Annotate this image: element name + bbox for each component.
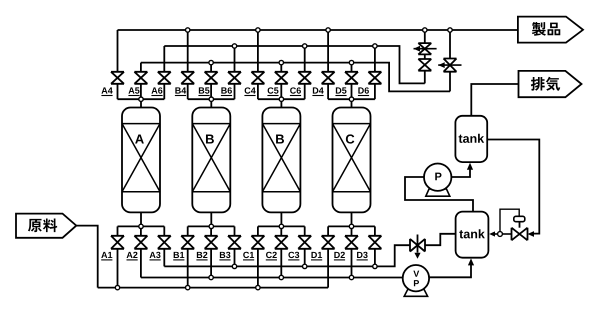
node bottom manifold A: [139, 224, 143, 228]
wire valve D5 to manifold: [351, 84, 353, 99]
wire riser valve A6: [163, 46, 165, 72]
pump P: [424, 164, 451, 197]
node B5 bus junction: [209, 60, 213, 64]
node C6 bus junction: [303, 44, 307, 48]
wire valve V4 stem: [417, 235, 419, 253]
wire manifold to valve A2: [140, 226, 142, 235]
node manifold D: [349, 97, 353, 101]
wire rinse bus: [141, 277, 403, 279]
adsorber vessel C4: [333, 108, 371, 213]
wire manifold to vessel B: [210, 99, 212, 107]
valve B3: [228, 236, 241, 249]
wire tap to valve V5: [502, 233, 511, 235]
wire valve V3 drop: [449, 72, 451, 92]
label D3: [357, 252, 368, 258]
arrow into tank T2: [495, 233, 498, 235]
label C4: [245, 87, 256, 93]
wire valve V2 drop: [424, 71, 426, 84]
label D1: [311, 252, 322, 258]
wire riser valve V1: [424, 30, 426, 43]
node bottom manifold B: [209, 224, 213, 228]
valve A6: [158, 72, 171, 84]
valve D5: [345, 72, 358, 84]
wire bottom manifold A: [118, 225, 165, 227]
valve C4: [251, 72, 264, 84]
node D4 bus junction: [326, 28, 330, 32]
wire riser valve D6: [374, 46, 376, 72]
valve V3 (purge supply): [444, 59, 457, 72]
wire riser valve A5: [140, 63, 142, 72]
wire manifold to valve A1: [117, 226, 119, 235]
wire valve A4 to manifold: [117, 84, 119, 99]
valve A1: [111, 236, 124, 249]
label B3: [220, 252, 231, 258]
node manifold C: [279, 97, 283, 101]
wire valve D3 drop: [374, 249, 376, 267]
wire pump P discharge: [451, 170, 470, 178]
wire vessel D outlet: [351, 212, 353, 226]
node manifold A: [139, 97, 143, 101]
valve D6: [368, 72, 381, 84]
wire valve C1 drop: [257, 249, 259, 288]
wire valve D4 to manifold: [327, 84, 329, 99]
wire riser valve D4: [327, 30, 329, 72]
node D3 bus junction: [373, 264, 377, 268]
wire valve A2 drop: [140, 249, 142, 278]
node D6 bus junction: [373, 44, 377, 48]
label C5: [268, 87, 279, 93]
wire top manifold A: [118, 98, 165, 100]
wire valve B3 drop: [234, 249, 236, 267]
wire valve D6 to manifold: [374, 84, 376, 99]
valve B1: [181, 236, 194, 249]
wire riser valve B4: [187, 30, 189, 72]
wire manifold to valve C3: [304, 226, 306, 235]
wire VP discharge to tank T2: [429, 265, 471, 277]
valve V2 (backfill): [418, 59, 431, 71]
node D2 bus junction: [349, 275, 353, 279]
wire vessel C outlet: [280, 212, 282, 226]
wire vessel A outlet: [140, 212, 142, 226]
wire valve A1 drop: [117, 249, 119, 288]
valve V5 actuator: [514, 216, 525, 227]
label D5: [336, 87, 347, 93]
node bottom manifold C: [279, 224, 283, 228]
node C4 bus junction: [256, 28, 260, 32]
label 製品 (product): [518, 17, 583, 43]
valve D1: [322, 236, 335, 249]
node C1 bus junction: [256, 285, 260, 289]
wire purge bus: [164, 46, 425, 83]
label A3: [150, 252, 161, 258]
node B2 bus junction: [209, 275, 213, 279]
wire riser valve D5: [351, 63, 353, 72]
wire manifold to valve D1: [327, 226, 329, 235]
label B4: [175, 87, 186, 93]
valve C3: [298, 236, 311, 249]
valve A2: [134, 236, 147, 249]
tank T2: [456, 212, 489, 258]
valve C1: [251, 236, 264, 249]
node D5 bus junction: [349, 60, 353, 64]
node B1 bus junction: [186, 285, 190, 289]
arrow valve V5 inlet: [528, 231, 535, 237]
wire valve D1 drop: [327, 249, 329, 288]
wire feed bus: [98, 287, 328, 289]
node pressure tap: [498, 232, 503, 237]
valve C6: [298, 72, 311, 84]
wire valve A6 to manifold: [163, 84, 165, 99]
adsorber vessel A1: [122, 108, 160, 213]
label 排気 (exhaust): [519, 71, 582, 97]
wire valve B1 drop: [187, 249, 189, 288]
node C5 bus junction: [279, 60, 283, 64]
adsorber vessel B3: [262, 108, 300, 213]
valve V5 (pressure control): [512, 228, 528, 241]
valve B4: [181, 72, 194, 84]
wire bottom manifold C: [258, 225, 305, 227]
label A1: [101, 252, 112, 258]
wire valve C4 to manifold: [257, 84, 259, 99]
arrow valve V1 flow: [414, 48, 437, 50]
node product bus to valve V1: [423, 28, 427, 32]
wire riser valve C6: [304, 46, 306, 72]
node product bus to valve V3: [448, 28, 452, 32]
wire manifold to valve B1: [187, 226, 189, 235]
valve A5: [134, 72, 147, 84]
wire manifold to vessel A: [140, 99, 142, 107]
label D4: [313, 87, 324, 93]
valve D3: [368, 236, 381, 249]
wire valve A3 drop: [163, 249, 165, 267]
wire riser valve V3: [449, 30, 451, 59]
label A2: [127, 252, 138, 258]
wire manifold to valve B3: [234, 226, 236, 235]
node manifold B: [209, 97, 213, 101]
wire valve B5 to manifold: [210, 84, 212, 99]
wire top manifold B: [188, 98, 235, 100]
valve C2: [275, 236, 288, 249]
wire manifold to valve D2: [351, 226, 353, 235]
wire manifold to vessel C: [280, 99, 282, 107]
label B5: [199, 87, 210, 93]
wire valve C6 to manifold: [304, 84, 306, 99]
wire manifold to valve A3: [163, 226, 165, 235]
label A4: [101, 87, 112, 93]
label C3: [288, 252, 299, 258]
label A6: [151, 87, 162, 93]
wire product bus: [118, 29, 518, 31]
wire manifold to valve B2: [210, 226, 212, 235]
wire valve V1 to V2: [424, 54, 426, 59]
node bottom manifold D: [349, 224, 353, 228]
vacuum pump VP: [403, 265, 429, 296]
wire valve C5 to manifold: [280, 84, 282, 99]
wire manifold to valve C2: [280, 226, 282, 235]
wire pilot line: [500, 209, 519, 231]
valve D4: [322, 72, 335, 84]
valve B6: [228, 72, 241, 84]
wire tank T1 to exhaust: [471, 84, 518, 116]
wire top manifold C: [258, 98, 305, 100]
wire riser valve C4: [257, 30, 259, 72]
wire top manifold D: [328, 98, 375, 100]
wire manifold to vessel D: [351, 99, 353, 107]
node B3 bus junction: [232, 264, 236, 268]
wire pump P suction: [405, 177, 473, 212]
valve A3: [158, 236, 171, 249]
valve B2: [205, 236, 218, 249]
node B4 bus junction: [186, 28, 190, 32]
wire valve B2 drop: [210, 249, 212, 278]
label B6: [221, 87, 232, 93]
node C2 bus junction: [279, 275, 283, 279]
wire vacuum bus: [164, 245, 410, 266]
valve V1 (backfill): [418, 43, 431, 54]
arrow valve V3 flow: [438, 64, 461, 66]
wire valve A5 to manifold: [140, 84, 142, 99]
adsorber vessel B2: [192, 108, 230, 213]
node C3 bus junction: [303, 264, 307, 268]
valve D2: [345, 236, 358, 249]
wire valve C2 drop: [280, 249, 282, 278]
wire feed line: [76, 226, 97, 288]
wire riser valve B6: [234, 46, 236, 72]
valve C5: [275, 72, 288, 84]
label C6: [290, 87, 301, 93]
wire riser valve A4: [117, 30, 119, 72]
label C1: [243, 252, 254, 258]
wire valve D2 drop: [351, 249, 353, 278]
label A5: [128, 87, 139, 93]
label C2: [266, 252, 277, 258]
wire equalization bus: [141, 63, 450, 92]
tank T1: [455, 116, 487, 162]
valve V4 (vent): [410, 239, 425, 252]
label D2: [334, 252, 345, 258]
wire tank T1 right to valve V5: [487, 140, 539, 234]
wire manifold to valve C1: [257, 226, 259, 235]
label B1: [174, 252, 185, 258]
wire manifold to valve D3: [374, 226, 376, 235]
wire bottom manifold D: [328, 225, 375, 227]
valve A4: [111, 72, 124, 84]
node B6 bus junction: [232, 44, 236, 48]
label D6: [358, 87, 369, 93]
valve B5: [205, 72, 218, 84]
wire valve V4 to tank T2: [425, 234, 456, 245]
wire riser valve B5: [210, 63, 212, 72]
label 原料 (feed): [16, 214, 76, 238]
wire valve C3 drop: [304, 249, 306, 267]
wire valve B4 to manifold: [187, 84, 189, 99]
node feed A1: [115, 285, 119, 289]
wire valve B6 to manifold: [234, 84, 236, 99]
wire bottom manifold B: [188, 225, 235, 227]
wire riser valve C5: [280, 63, 282, 72]
wire vessel B outlet: [210, 212, 212, 226]
label B2: [197, 252, 208, 258]
